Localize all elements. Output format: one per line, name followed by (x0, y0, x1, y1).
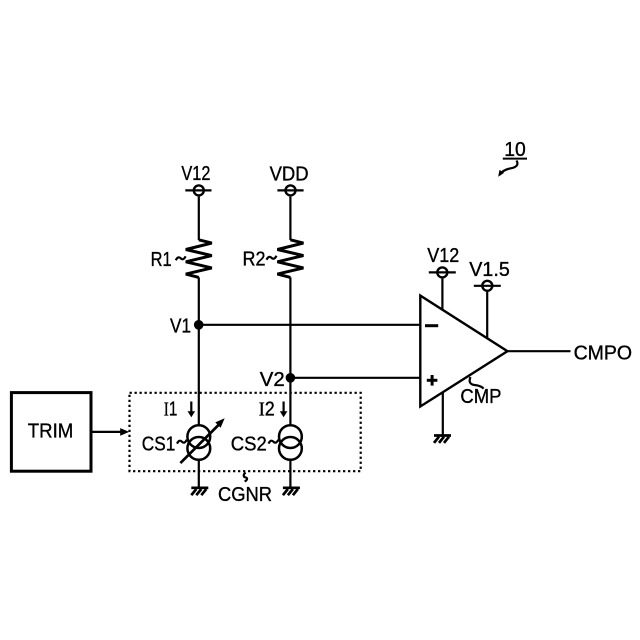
plus input sign (427, 379, 438, 382)
wire V12 terminal to op-amp (441, 279, 443, 311)
wire V2 to comparator plus input (290, 377, 420, 379)
svg-text:TRIM: TRIM (28, 420, 74, 442)
current arrow I2 (283, 402, 285, 413)
svg-text:CMPO: CMPO (574, 342, 633, 364)
minus input sign (425, 324, 438, 327)
ground (below op-amp) (434, 434, 451, 437)
svg-text:V12: V12 (181, 163, 210, 185)
svg-text:R2: R2 (243, 249, 266, 271)
block TRIM (11, 393, 91, 472)
wire op-amp output (508, 350, 571, 352)
current source CS1 (187, 425, 210, 448)
wire CS2 to ground (289, 460, 291, 488)
terminal V12 (left rail) (194, 185, 204, 195)
tilde leader CMP (470, 377, 484, 389)
terminal V1.5 (482, 281, 492, 291)
tilde leader R2 (267, 256, 277, 260)
ground (below CS2) (283, 486, 300, 489)
svg-text:CS2: CS2 (231, 434, 267, 456)
wire V1.5 terminal to op-amp (486, 292, 488, 339)
svg-text:CMP: CMP (460, 386, 501, 408)
tilde leader R1 (176, 256, 186, 260)
svg-text:CGNR: CGNR (218, 484, 272, 506)
svg-text:V12: V12 (427, 245, 459, 267)
svg-text:V2: V2 (260, 369, 285, 391)
underline of label 10 (503, 158, 527, 160)
op-amp CMP (420, 296, 507, 407)
node V2 (286, 373, 296, 383)
svg-text:V1: V1 (170, 316, 191, 338)
wire R1 to CS1 (198, 277, 200, 425)
tilde leader CGNR (244, 473, 247, 482)
svg-text:I2: I2 (259, 399, 275, 421)
wire R2 to CS2 (289, 277, 291, 425)
svg-text:V1.5: V1.5 (469, 259, 510, 281)
variable arrow through CS1 (180, 425, 218, 463)
current arrow I1 (190, 402, 192, 413)
wire VDD terminal to R2 (289, 197, 291, 240)
resistor R2 (277, 240, 303, 278)
wire V12 terminal to R1 (198, 197, 200, 240)
ground (below CS1) (191, 486, 208, 489)
tilde leader CS2 (269, 440, 279, 444)
tilde leader CS1 (177, 440, 187, 444)
node V1 (194, 320, 204, 330)
current source CS2 (279, 425, 302, 448)
arrow TRIM to CGNR box (91, 431, 121, 433)
svg-text:VDD: VDD (270, 164, 309, 186)
leader arrow for 10 (499, 161, 517, 175)
svg-text:R1: R1 (151, 249, 172, 271)
wire V1 to comparator minus input (199, 324, 420, 326)
wire CS1 to ground (198, 460, 200, 488)
wire op-amp to ground (442, 392, 444, 435)
terminal V12 (comparator supply) (437, 267, 447, 277)
resistor R1 (186, 240, 212, 278)
terminal VDD (286, 185, 296, 195)
svg-text:CS1: CS1 (142, 433, 176, 455)
svg-text:I1: I1 (164, 399, 178, 421)
dashed box CGNR (130, 393, 361, 471)
